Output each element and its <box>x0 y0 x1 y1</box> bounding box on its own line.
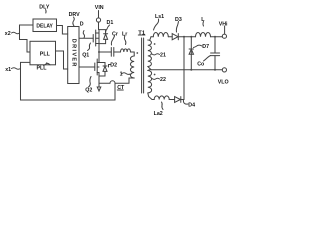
svg-text:Ls1: Ls1 <box>155 14 164 20</box>
svg-text:D1: D1 <box>107 20 114 26</box>
svg-text:VHi: VHi <box>219 22 228 28</box>
svg-text:D3: D3 <box>175 17 182 23</box>
svg-text:D4: D4 <box>188 103 195 109</box>
svg-text:Co: Co <box>197 61 205 67</box>
svg-text:x1: x1 <box>5 67 11 73</box>
svg-text:Lr: Lr <box>122 32 127 38</box>
svg-text:1: 1 <box>120 72 123 78</box>
svg-text:DELAY: DELAY <box>36 24 53 30</box>
svg-text:DRIVER: DRIVER <box>70 39 76 68</box>
svg-text:T1: T1 <box>138 30 146 36</box>
svg-text:VLO: VLO <box>218 80 229 86</box>
svg-text:D7: D7 <box>202 44 209 50</box>
svg-text:La2: La2 <box>154 111 163 117</box>
svg-text:DRV: DRV <box>69 12 81 18</box>
svg-text:PLL: PLL <box>37 66 48 72</box>
svg-text:PLL: PLL <box>40 52 51 58</box>
svg-text:Cr: Cr <box>112 32 118 38</box>
svg-text:D2: D2 <box>110 63 117 69</box>
svg-text:D: D <box>80 22 84 28</box>
svg-text:DLY: DLY <box>39 5 50 11</box>
svg-text:22: 22 <box>160 77 166 83</box>
svg-text:Q2: Q2 <box>85 87 92 93</box>
svg-text:21: 21 <box>160 53 166 59</box>
svg-text:CT: CT <box>117 85 125 91</box>
svg-text:VIN: VIN <box>95 5 104 11</box>
svg-text:x2: x2 <box>5 31 11 37</box>
svg-text:Q1: Q1 <box>82 53 89 59</box>
svg-text:L: L <box>201 17 205 23</box>
